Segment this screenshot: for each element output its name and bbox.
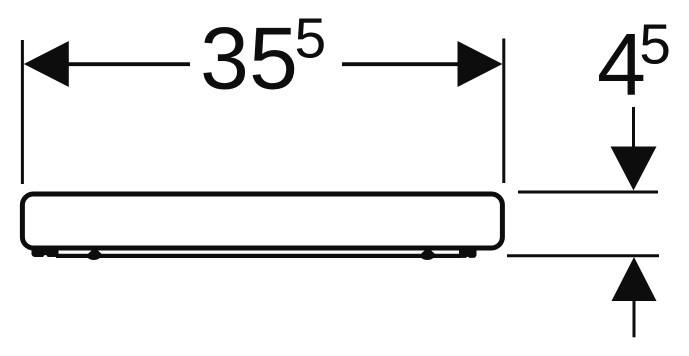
underside line xyxy=(56,254,461,258)
down arrowhead xyxy=(611,147,657,191)
svg-text:5: 5 xyxy=(639,13,671,77)
right foot buffer 1 xyxy=(420,250,437,256)
arrowhead left xyxy=(24,41,69,87)
right foot buffer notch xyxy=(466,257,470,262)
left foot buffer inner xyxy=(87,250,104,256)
left foot buffer pair xyxy=(32,246,59,257)
body rounded rect xyxy=(22,194,502,248)
extension line lower right horizontal xyxy=(507,254,659,257)
dimension line right segment xyxy=(342,62,470,66)
up arrow stem xyxy=(633,300,636,337)
svg-text:35: 35 xyxy=(200,8,298,107)
up arrowhead xyxy=(612,257,657,301)
left foot buffer notch xyxy=(43,255,48,262)
extension line left xyxy=(21,40,24,184)
svg-text:5: 5 xyxy=(295,7,327,71)
dimension line left segment xyxy=(60,62,190,66)
arrowhead right xyxy=(458,41,503,87)
extension line right xyxy=(502,39,505,184)
right foot buffer pair xyxy=(459,246,477,258)
down arrow stem xyxy=(632,107,635,150)
extension line upper right horizontal xyxy=(518,191,658,194)
